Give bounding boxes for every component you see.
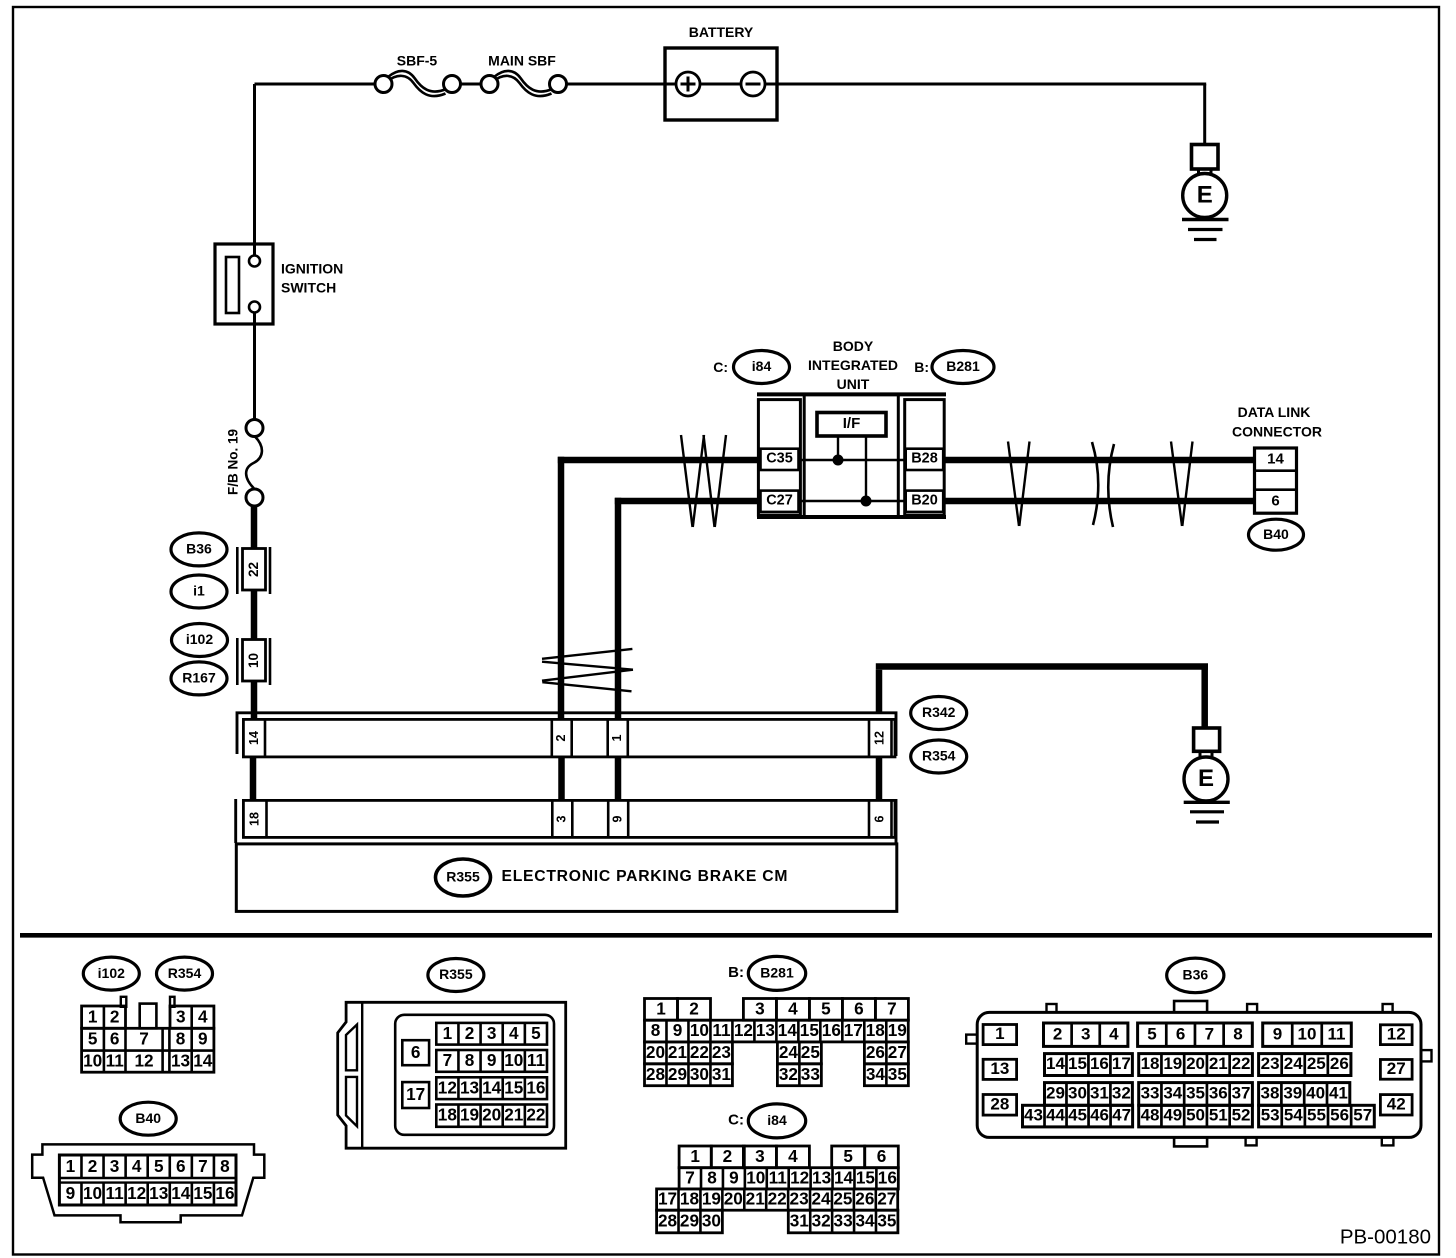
svg-text:15: 15 xyxy=(1068,1054,1087,1073)
svg-text:7: 7 xyxy=(443,1050,453,1070)
svg-text:10: 10 xyxy=(83,1050,102,1070)
svg-text:20: 20 xyxy=(724,1189,743,1209)
svg-text:23: 23 xyxy=(790,1189,809,1209)
svg-text:40: 40 xyxy=(1306,1084,1325,1103)
svg-text:6: 6 xyxy=(110,1029,120,1049)
svg-text:2: 2 xyxy=(1053,1024,1062,1043)
svg-text:7: 7 xyxy=(139,1029,149,1049)
svg-text:49: 49 xyxy=(1163,1106,1182,1125)
svg-text:43: 43 xyxy=(1024,1106,1043,1125)
svg-text:1: 1 xyxy=(66,1156,76,1176)
svg-text:16: 16 xyxy=(878,1167,897,1187)
svg-text:52: 52 xyxy=(1232,1106,1251,1125)
svg-text:10: 10 xyxy=(504,1050,523,1070)
svg-text:16: 16 xyxy=(1090,1054,1109,1073)
svg-text:19: 19 xyxy=(1163,1054,1182,1073)
svg-text:B40: B40 xyxy=(135,1110,161,1126)
svg-text:BODY: BODY xyxy=(833,338,874,354)
svg-text:3: 3 xyxy=(755,1146,765,1166)
svg-text:B20: B20 xyxy=(911,493,938,509)
svg-text:3: 3 xyxy=(1081,1024,1090,1043)
svg-text:B:: B: xyxy=(914,359,929,375)
connector label i1 xyxy=(171,575,227,608)
svg-text:30: 30 xyxy=(1068,1084,1087,1103)
svg-text:4: 4 xyxy=(132,1156,142,1176)
svg-text:27: 27 xyxy=(877,1189,896,1209)
pin 1 xyxy=(606,719,609,757)
svg-text:37: 37 xyxy=(1232,1084,1251,1103)
svg-text:7: 7 xyxy=(198,1156,208,1176)
wire pin14 to pin18 xyxy=(250,757,257,801)
svg-text:45: 45 xyxy=(1068,1106,1087,1125)
svg-text:23: 23 xyxy=(1261,1054,1280,1073)
svg-text:C27: C27 xyxy=(766,493,793,509)
svg-text:24: 24 xyxy=(779,1042,799,1062)
EPB connector row 2 brackets xyxy=(234,799,237,843)
svg-text:i102: i102 xyxy=(186,631,213,647)
connector label B40 (view) xyxy=(120,1102,176,1135)
svg-text:54: 54 xyxy=(1284,1106,1303,1125)
I/F leg to node 2 xyxy=(865,436,867,501)
svg-text:42: 42 xyxy=(1387,1094,1406,1113)
svg-text:14: 14 xyxy=(778,1020,798,1040)
svg-text:i84: i84 xyxy=(752,358,772,374)
svg-text:39: 39 xyxy=(1283,1084,1302,1103)
svg-text:22: 22 xyxy=(246,562,261,577)
svg-text:3: 3 xyxy=(554,815,568,822)
fuse MAIN SBF xyxy=(481,53,567,96)
svg-text:50: 50 xyxy=(1186,1106,1205,1125)
data link connector label xyxy=(1232,404,1322,440)
svg-text:9: 9 xyxy=(198,1029,208,1049)
svg-text:R342: R342 xyxy=(922,704,956,720)
svg-text:5: 5 xyxy=(88,1029,98,1049)
ground E (battery negative) xyxy=(1182,145,1229,240)
harness marks (left pair) xyxy=(681,435,726,527)
svg-text:8: 8 xyxy=(651,1020,661,1040)
svg-text:14: 14 xyxy=(1267,450,1284,467)
svg-text:5: 5 xyxy=(154,1156,164,1176)
svg-text:SBF-5: SBF-5 xyxy=(397,53,438,69)
body integrated unit label xyxy=(808,338,898,392)
pin 12 xyxy=(868,719,871,757)
fuse SBF-5 xyxy=(375,53,461,96)
pin 14 xyxy=(264,719,267,757)
svg-text:6: 6 xyxy=(854,998,864,1018)
connector label C: i84 (view) xyxy=(728,1104,806,1138)
svg-text:17: 17 xyxy=(1112,1054,1131,1073)
svg-text:34: 34 xyxy=(1163,1084,1182,1103)
svg-text:35: 35 xyxy=(888,1064,908,1084)
svg-text:E: E xyxy=(1197,182,1213,209)
svg-text:CONNECTOR: CONNECTOR xyxy=(1232,424,1322,440)
svg-text:28: 28 xyxy=(646,1064,666,1084)
svg-text:7: 7 xyxy=(887,998,897,1018)
svg-text:16: 16 xyxy=(215,1183,234,1203)
wire: ignition switch to fuse F/B xyxy=(253,324,256,420)
connector label B36 xyxy=(171,533,227,566)
pin 2 xyxy=(550,719,553,757)
svg-text:10: 10 xyxy=(746,1167,765,1187)
wire: C35 to EPB pin 2 xyxy=(558,457,759,464)
svg-text:53: 53 xyxy=(1261,1106,1280,1125)
connector label B: B281 (view) xyxy=(728,956,806,990)
svg-text:1: 1 xyxy=(656,998,666,1018)
svg-text:C:: C: xyxy=(713,359,728,375)
svg-text:20: 20 xyxy=(1186,1054,1205,1073)
svg-text:21: 21 xyxy=(668,1042,688,1062)
svg-text:14: 14 xyxy=(193,1050,213,1070)
svg-text:6: 6 xyxy=(1176,1024,1185,1043)
svg-text:24: 24 xyxy=(811,1189,831,1209)
svg-text:10: 10 xyxy=(83,1183,102,1203)
svg-text:DATA LINK: DATA LINK xyxy=(1238,404,1311,420)
svg-text:14: 14 xyxy=(247,731,261,745)
connector view i84 xyxy=(657,1146,899,1233)
svg-text:9: 9 xyxy=(66,1183,76,1203)
connector label R354 xyxy=(911,740,967,773)
svg-text:15: 15 xyxy=(856,1167,876,1187)
svg-text:19: 19 xyxy=(702,1189,721,1209)
svg-text:6: 6 xyxy=(411,1042,421,1062)
I/F leg to node 1 xyxy=(837,436,839,460)
svg-text:38: 38 xyxy=(1261,1084,1280,1103)
svg-text:12: 12 xyxy=(790,1167,809,1187)
svg-text:26: 26 xyxy=(866,1042,885,1062)
svg-text:34: 34 xyxy=(855,1211,875,1231)
connector view i102/R354 xyxy=(82,997,214,1072)
svg-text:18: 18 xyxy=(866,1020,886,1040)
svg-text:5: 5 xyxy=(821,998,831,1018)
svg-text:27: 27 xyxy=(888,1042,907,1062)
svg-text:24: 24 xyxy=(1284,1054,1303,1073)
svg-text:10: 10 xyxy=(690,1020,709,1040)
svg-text:8: 8 xyxy=(1233,1024,1242,1043)
ground E (EPB) xyxy=(1184,728,1230,822)
harness mark V1 xyxy=(1008,442,1030,527)
svg-text:9: 9 xyxy=(673,1020,683,1040)
svg-text:C35: C35 xyxy=(766,451,793,467)
pin 6 xyxy=(868,800,871,837)
svg-text:14: 14 xyxy=(1046,1054,1065,1073)
svg-text:R354: R354 xyxy=(168,965,202,981)
wire: right vertical down to ground E xyxy=(1203,84,1206,146)
svg-text:MAIN SBF: MAIN SBF xyxy=(488,53,556,69)
svg-text:19: 19 xyxy=(460,1105,479,1125)
svg-text:3: 3 xyxy=(110,1156,120,1176)
svg-text:29: 29 xyxy=(668,1064,687,1084)
junction node 2 xyxy=(861,496,872,507)
wire: B20 to DLC pin 6 xyxy=(943,498,1255,505)
svg-text:15: 15 xyxy=(800,1020,820,1040)
svg-text:22: 22 xyxy=(768,1189,787,1209)
svg-text:21: 21 xyxy=(746,1189,766,1209)
pin C35 xyxy=(761,449,799,470)
connector view B40 xyxy=(32,1144,264,1222)
wire: pin 12 to ground xyxy=(876,670,883,713)
wire: battery feed horizontal xyxy=(255,83,393,86)
svg-text:1: 1 xyxy=(610,734,624,741)
svg-text:13: 13 xyxy=(171,1050,190,1070)
inline connector 22 (B36/i1) xyxy=(237,547,270,594)
svg-text:2: 2 xyxy=(554,734,568,741)
connector label R342 xyxy=(911,697,967,730)
svg-text:R355: R355 xyxy=(439,966,473,982)
svg-text:56: 56 xyxy=(1330,1106,1349,1125)
svg-text:15: 15 xyxy=(193,1183,213,1203)
svg-text:INTEGRATED: INTEGRATED xyxy=(808,357,898,373)
svg-text:12: 12 xyxy=(872,731,886,745)
wire pin2 to pin3 xyxy=(558,757,565,801)
wire: C27 to EPB pin 1 xyxy=(615,498,759,505)
svg-text:11: 11 xyxy=(712,1020,731,1040)
svg-text:3: 3 xyxy=(755,998,765,1018)
wire: fuse to connector 22 xyxy=(251,506,258,549)
svg-text:33: 33 xyxy=(1141,1084,1160,1103)
svg-text:9: 9 xyxy=(1273,1024,1282,1043)
svg-text:13: 13 xyxy=(149,1183,168,1203)
svg-text:25: 25 xyxy=(1307,1054,1326,1073)
svg-text:B28: B28 xyxy=(911,451,938,467)
svg-text:30: 30 xyxy=(702,1211,721,1231)
svg-text:8: 8 xyxy=(465,1050,475,1070)
svg-text:18: 18 xyxy=(438,1105,458,1125)
svg-text:B:: B: xyxy=(728,964,744,981)
svg-text:17: 17 xyxy=(406,1084,425,1104)
connector label B40 xyxy=(1249,519,1304,550)
svg-text:2: 2 xyxy=(689,998,699,1018)
svg-text:BATTERY: BATTERY xyxy=(689,24,754,40)
EPB connector row 2 (R355) xyxy=(243,800,895,837)
EPB connector row 1 (R342/R354) xyxy=(243,719,895,757)
svg-text:IGNITION: IGNITION xyxy=(281,261,343,277)
svg-text:F/B No. 19: F/B No. 19 xyxy=(225,429,240,495)
svg-text:26: 26 xyxy=(1330,1054,1349,1073)
svg-text:17: 17 xyxy=(658,1189,677,1209)
svg-text:i84: i84 xyxy=(767,1112,787,1128)
wire: B28 to DLC pin 14 xyxy=(943,457,1255,464)
svg-text:26: 26 xyxy=(855,1189,874,1209)
svg-text:11: 11 xyxy=(106,1183,125,1203)
svg-text:PB-00180: PB-00180 xyxy=(1340,1225,1431,1248)
svg-text:5: 5 xyxy=(1147,1024,1156,1043)
svg-text:12: 12 xyxy=(134,1050,153,1070)
svg-text:32: 32 xyxy=(812,1211,831,1231)
svg-text:57: 57 xyxy=(1353,1106,1372,1125)
svg-text:7: 7 xyxy=(685,1167,695,1187)
svg-text:7: 7 xyxy=(1205,1024,1214,1043)
svg-text:12: 12 xyxy=(1387,1024,1406,1043)
svg-text:12: 12 xyxy=(734,1020,753,1040)
ignition switch xyxy=(215,244,343,324)
svg-text:15: 15 xyxy=(504,1077,524,1097)
svg-text:9: 9 xyxy=(610,815,624,822)
svg-text:18: 18 xyxy=(247,812,261,826)
svg-text:3: 3 xyxy=(487,1023,497,1043)
pin 18 xyxy=(265,800,268,837)
connector label i102 xyxy=(172,624,228,657)
svg-text:14: 14 xyxy=(834,1167,854,1187)
svg-text:29: 29 xyxy=(1046,1084,1065,1103)
svg-text:2: 2 xyxy=(465,1023,475,1043)
connector label R167 xyxy=(171,662,227,695)
svg-text:2: 2 xyxy=(88,1156,98,1176)
svg-text:6: 6 xyxy=(877,1146,887,1166)
svg-text:B36: B36 xyxy=(1182,967,1208,983)
svg-text:3: 3 xyxy=(176,1006,186,1026)
svg-text:1: 1 xyxy=(690,1146,700,1166)
connector label i102 (view) xyxy=(83,957,139,990)
inline connector 10 (i102/R167) xyxy=(237,638,270,685)
harness mark V2 xyxy=(1171,442,1193,527)
svg-text:25: 25 xyxy=(801,1042,821,1062)
svg-text:11: 11 xyxy=(106,1050,125,1070)
svg-text:6: 6 xyxy=(872,815,886,822)
internal bus C35-B28 xyxy=(799,459,905,461)
svg-text:28: 28 xyxy=(658,1211,678,1231)
svg-text:2: 2 xyxy=(110,1006,120,1026)
fuse F/B No. 19 xyxy=(225,420,263,507)
svg-text:14: 14 xyxy=(482,1077,502,1097)
svg-text:29: 29 xyxy=(680,1211,699,1231)
connector label R354 (view) xyxy=(157,957,213,990)
pin 9 xyxy=(607,800,610,837)
svg-text:22: 22 xyxy=(526,1105,545,1125)
svg-text:R167: R167 xyxy=(182,670,216,686)
twisted pair marks xyxy=(542,649,633,691)
pin B28 xyxy=(906,449,944,470)
svg-text:16: 16 xyxy=(822,1020,841,1040)
wire: left vertical down to ignition switch xyxy=(253,84,256,244)
svg-text:4: 4 xyxy=(509,1023,519,1043)
wire pin1 to pin9 xyxy=(615,757,622,801)
svg-text:B36: B36 xyxy=(186,541,212,557)
svg-text:33: 33 xyxy=(834,1211,853,1231)
svg-text:2: 2 xyxy=(723,1146,733,1166)
EPB connector row 1 bracket xyxy=(237,713,896,756)
svg-text:21: 21 xyxy=(1209,1054,1228,1073)
svg-text:25: 25 xyxy=(833,1189,853,1209)
svg-text:27: 27 xyxy=(1387,1059,1406,1078)
svg-text:i102: i102 xyxy=(98,965,125,981)
connector label B: B281 xyxy=(914,351,994,384)
svg-text:12: 12 xyxy=(438,1077,457,1097)
pin C27 xyxy=(761,491,799,512)
EPB control module box xyxy=(236,844,897,912)
section divider line xyxy=(20,933,1432,938)
svg-text:30: 30 xyxy=(690,1064,709,1084)
svg-text:16: 16 xyxy=(526,1077,545,1097)
svg-text:51: 51 xyxy=(1209,1106,1228,1125)
wire pin12 to pin6 xyxy=(876,757,883,801)
svg-text:31: 31 xyxy=(1090,1084,1109,1103)
connector view B281 xyxy=(645,998,909,1085)
svg-text:6: 6 xyxy=(176,1156,186,1176)
svg-text:33: 33 xyxy=(801,1064,820,1084)
svg-text:14: 14 xyxy=(171,1183,191,1203)
svg-text:4: 4 xyxy=(788,998,798,1018)
svg-text:4: 4 xyxy=(788,1146,798,1166)
svg-text:11: 11 xyxy=(527,1050,546,1070)
svg-text:23: 23 xyxy=(712,1042,731,1062)
harness break marks xyxy=(1092,442,1114,527)
svg-text:46: 46 xyxy=(1090,1106,1109,1125)
svg-text:36: 36 xyxy=(1209,1084,1228,1103)
internal bus C27-B20 xyxy=(799,500,905,502)
svg-text:6: 6 xyxy=(1271,492,1279,509)
svg-text:18: 18 xyxy=(680,1189,700,1209)
junction node 1 xyxy=(833,455,844,466)
svg-text:35: 35 xyxy=(1186,1084,1205,1103)
svg-text:19: 19 xyxy=(888,1020,907,1040)
svg-text:SWITCH: SWITCH xyxy=(281,280,336,296)
svg-text:B40: B40 xyxy=(1263,526,1289,542)
svg-text:11: 11 xyxy=(1328,1024,1346,1043)
connector view R355 xyxy=(338,1002,566,1148)
wire: connector 22 to connector 10 xyxy=(251,590,258,640)
svg-text:13: 13 xyxy=(756,1020,775,1040)
svg-text:UNIT: UNIT xyxy=(837,376,870,392)
svg-text:35: 35 xyxy=(877,1211,897,1231)
svg-text:10: 10 xyxy=(246,653,261,668)
connector label R355 (view) xyxy=(428,959,484,992)
svg-text:C:: C: xyxy=(728,1112,744,1129)
svg-text:4: 4 xyxy=(1109,1024,1119,1043)
connector label B36 (view) xyxy=(1167,958,1224,993)
svg-text:8: 8 xyxy=(707,1167,717,1187)
svg-text:13: 13 xyxy=(812,1167,831,1187)
svg-text:4: 4 xyxy=(198,1006,208,1026)
svg-text:22: 22 xyxy=(1232,1054,1251,1073)
svg-text:5: 5 xyxy=(531,1023,541,1043)
connector view B36 xyxy=(966,1001,1431,1146)
connector label C: i84 xyxy=(713,351,789,384)
pin B20 xyxy=(906,491,944,512)
svg-text:55: 55 xyxy=(1307,1106,1326,1125)
svg-text:32: 32 xyxy=(779,1064,798,1084)
I/F block xyxy=(817,413,886,437)
svg-text:41: 41 xyxy=(1329,1084,1348,1103)
svg-text:1: 1 xyxy=(88,1006,98,1026)
svg-text:1: 1 xyxy=(995,1024,1004,1043)
svg-text:22: 22 xyxy=(690,1042,709,1062)
svg-text:R354: R354 xyxy=(922,748,956,764)
svg-text:ELECTRONIC PARKING BRAKE CM: ELECTRONIC PARKING BRAKE CM xyxy=(502,868,789,885)
svg-text:5: 5 xyxy=(843,1146,853,1166)
svg-text:17: 17 xyxy=(844,1020,863,1040)
svg-text:8: 8 xyxy=(176,1029,186,1049)
svg-text:E: E xyxy=(1198,765,1214,792)
svg-text:10: 10 xyxy=(1298,1024,1317,1043)
svg-text:18: 18 xyxy=(1141,1054,1160,1073)
svg-text:R355: R355 xyxy=(446,869,480,885)
wire: connector 10 to EPB pin 14 xyxy=(251,681,258,719)
svg-text:13: 13 xyxy=(460,1077,479,1097)
svg-text:12: 12 xyxy=(127,1183,146,1203)
svg-text:8: 8 xyxy=(220,1156,230,1176)
svg-text:9: 9 xyxy=(487,1050,497,1070)
svg-text:31: 31 xyxy=(790,1211,810,1231)
svg-text:13: 13 xyxy=(990,1059,1009,1078)
data link connector B40 xyxy=(1255,448,1297,513)
svg-text:20: 20 xyxy=(482,1105,501,1125)
svg-text:9: 9 xyxy=(729,1167,739,1187)
svg-text:20: 20 xyxy=(646,1042,665,1062)
svg-text:34: 34 xyxy=(866,1064,886,1084)
svg-text:B281: B281 xyxy=(946,358,980,374)
svg-text:I/F: I/F xyxy=(843,415,861,432)
svg-text:i1: i1 xyxy=(193,583,205,599)
